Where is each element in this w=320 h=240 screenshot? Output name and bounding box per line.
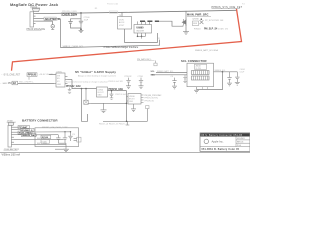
wire: drop to Q7180 bbox=[185, 11, 187, 18]
svg-text:S5 "G3Hot" 3.425V Supply: S5 "G3Hot" 3.425V Supply bbox=[75, 70, 116, 74]
connector P5100 reference label bbox=[27, 28, 46, 31]
svg-text:PACK_A PACK_B PACK_C: PACK_A PACK_B PACK_C bbox=[99, 122, 128, 125]
wire: row2 into U7090 bbox=[18, 82, 54, 84]
wire: U5920 output bbox=[108, 90, 127, 92]
wire: row4 into pack box bbox=[36, 134, 58, 136]
node: bottom rail junction bbox=[126, 121, 128, 123]
svg-text:PP1V8_S5: PP1V8_S5 bbox=[145, 100, 154, 102]
LDO U5920 bbox=[97, 87, 108, 97]
svg-text:- -SMC: - -SMC bbox=[1, 83, 8, 85]
capacitor C7000 bbox=[56, 135, 60, 144]
capacitor C7201 with ground bbox=[138, 76, 144, 89]
title block outer frame bbox=[200, 133, 250, 151]
capacitor C7091 bbox=[68, 88, 71, 94]
svg-text:100K 1%: 100K 1% bbox=[218, 29, 228, 31]
title block header band bbox=[200, 133, 249, 137]
connector P5100 shell (trapezoid) bbox=[32, 9, 39, 12]
transistor Q7180 (P-FET) bbox=[178, 18, 187, 26]
svg-text:PPVBAT: PPVBAT bbox=[19, 126, 28, 129]
wire: pin2 bbox=[14, 129, 21, 131]
ground: pack caps bbox=[55, 143, 69, 151]
charger IC U6990 bbox=[134, 25, 152, 34]
svg-text:CHGR_DCIN: CHGR_DCIN bbox=[62, 13, 77, 16]
wire: gate drive (bold dashed) bbox=[140, 20, 159, 22]
svg-text:PPBUS: PPBUS bbox=[28, 74, 37, 77]
wire: P6 to DCIN rail bbox=[121, 12, 123, 16]
connector J7000 shell (trapezoid) bbox=[8, 123, 14, 126]
connector J6100 pin row A bbox=[192, 71, 210, 75]
capacitor C6100 with ground bbox=[227, 72, 232, 86]
wire: gate drive thin continuation bbox=[159, 21, 178, 26]
wire: bottom rail bbox=[103, 120, 148, 122]
net label CHGR_BSENSE (boxed) bbox=[44, 17, 60, 21]
wire: PPBUS down jog bbox=[81, 88, 83, 90]
ground: U5930 bbox=[131, 104, 136, 112]
svg-text:Q7180: Q7180 bbox=[192, 19, 199, 21]
indicator D1 (circle symbol) bbox=[51, 25, 54, 28]
value label C7500 bbox=[84, 17, 91, 21]
U6990 bottom pins bbox=[137, 33, 146, 39]
resistor R7000 (boxed) bbox=[41, 135, 51, 139]
net label BATT_PRES (boxed) bbox=[18, 131, 32, 135]
capacitor C7510 branch (left leg) bbox=[68, 19, 81, 28]
svg-text:Always on when battery or char: Always on when battery or charger is pre… bbox=[78, 74, 116, 77]
title block apple logo bbox=[204, 139, 208, 144]
svg-text:GND: GND bbox=[57, 84, 62, 86]
svg-text:ADAPTER_ID: ADAPTER_ID bbox=[45, 18, 61, 21]
net name MAIN_PWR_SRC bbox=[187, 14, 211, 17]
svg-text:PP3V42: PP3V42 bbox=[125, 76, 132, 78]
wire: row3 into pack box bbox=[32, 131, 71, 133]
connector J7000 label bbox=[7, 121, 17, 123]
resistor R7021 (diagonal marks) bbox=[200, 20, 204, 24]
wire: sense to SMBus drop bbox=[56, 18, 60, 20]
svg-text:PM_EN_P3V3 SMC: PM_EN_P3V3 SMC bbox=[145, 95, 163, 97]
connector P5100 label bbox=[31, 6, 41, 8]
wire: pin3 bbox=[14, 131, 18, 133]
fuse F5100 body bbox=[110, 11, 118, 13]
ground: U5920 bbox=[101, 103, 107, 112]
wire: pin5 SCL bbox=[14, 138, 64, 140]
svg-text:U6990: U6990 bbox=[136, 26, 144, 29]
svg-text:C7201: C7201 bbox=[138, 76, 144, 78]
wire: pin1 bbox=[14, 126, 18, 128]
capacitor C7001 bbox=[58, 131, 67, 143]
connector J6100 outer box bbox=[187, 63, 214, 86]
ground: DCIN caps bbox=[79, 30, 84, 32]
svg-text:SMBUS_BATT_SCL/SDA: SMBUS_BATT_SCL/SDA bbox=[195, 49, 219, 52]
resistor R5922 (box with X) bbox=[84, 88, 91, 105]
svg-text:C5921 0.1uF: C5921 0.1uF bbox=[115, 94, 127, 96]
svg-text:C70: C70 bbox=[72, 134, 75, 136]
svg-text:SMBUS_BATT_SCL: SMBUS_BATT_SCL bbox=[157, 70, 173, 73]
pack box right pins bbox=[74, 137, 82, 142]
wire: SCL left 1 bbox=[156, 71, 187, 73]
net flag at lower rail bbox=[146, 106, 149, 122]
capacitor C4 with ground bbox=[171, 76, 178, 89]
connector J6100 inner label box bbox=[195, 64, 207, 70]
net labels right of U5930 bbox=[145, 95, 163, 102]
svg-text:SDA: SDA bbox=[151, 74, 156, 77]
regulator U7090 bbox=[54, 71, 68, 87]
svg-text:0.005: 0.005 bbox=[42, 142, 48, 144]
page bottom border bbox=[0, 151, 250, 153]
wire: pin 2 to sense label bbox=[36, 18, 44, 20]
capacitor C7002 bbox=[68, 131, 75, 141]
wire: extra shield ticks bbox=[202, 87, 204, 90]
svg-text:C5920 0.1uF 16V: C5920 0.1uF 16V bbox=[108, 81, 124, 83]
resistor stub near PPBUS bbox=[28, 77, 30, 80]
wire: ground return loop bbox=[197, 72, 223, 90]
wire: charger feedback loop bbox=[125, 29, 158, 42]
ground under Q7180 bbox=[183, 32, 189, 34]
connector J7000 body bbox=[8, 125, 14, 147]
node: right junction bbox=[222, 71, 224, 73]
battery pack outline box bbox=[35, 128, 79, 147]
wire: row1 into U7090 bbox=[49, 74, 56, 76]
svg-text:BATTERY CONNECTOR: BATTERY CONNECTOR bbox=[22, 118, 58, 122]
svg-text:PP_SYS R7021 10K: PP_SYS R7021 10K bbox=[205, 20, 224, 22]
svg-text:PPVBAT_G3H_CHGR_CONN: PPVBAT_G3H_CHGR_CONN bbox=[42, 126, 68, 129]
node: output junction bbox=[111, 90, 113, 92]
gate clamp box bbox=[193, 21, 199, 26]
connector J6100 pin row B bbox=[192, 76, 210, 80]
svg-text:PM: PM bbox=[8, 83, 12, 85]
ground under D1 bbox=[51, 28, 54, 30]
svg-text:SMBUS_SCL: SMBUS_SCL bbox=[215, 70, 226, 72]
red markup line (cross-out) bbox=[12, 9, 242, 71]
wire: SMBus vertical run bbox=[60, 19, 62, 48]
wire: ID pin bbox=[36, 20, 53, 22]
connector P5100 body bbox=[30, 12, 36, 27]
svg-text:SCL CONNECTOR: SCL CONNECTOR bbox=[181, 59, 207, 63]
capacitor C7200 with ground bbox=[125, 76, 132, 89]
svg-text:2-Wire SMBus/Charger Interface: 2-Wire SMBus/Charger Interface bbox=[104, 46, 139, 49]
capacitor C5921 bbox=[110, 91, 114, 100]
capacitor C6101 with ground bbox=[235, 69, 245, 85]
net label CHGR_DCIN (boxed) bbox=[62, 11, 78, 16]
svg-text:R7020: R7020 bbox=[194, 29, 201, 31]
net flag PM_BATLOW bbox=[137, 58, 157, 66]
U6990 top pins bbox=[138, 21, 150, 24]
node: DCIN junction bbox=[80, 12, 82, 14]
svg-text:VOUT: VOUT bbox=[119, 25, 125, 27]
svg-text:ISL9239: ISL9239 bbox=[136, 30, 144, 32]
svg-text:Apple Inc.: Apple Inc. bbox=[212, 139, 224, 143]
wire: U7090 output rail bbox=[68, 79, 73, 81]
wire: pin6 SDA bbox=[14, 143, 66, 145]
title block right column bbox=[236, 137, 250, 147]
wire: SCL left 2 bbox=[151, 74, 187, 76]
net label PPVBAT (boxed) bbox=[18, 126, 30, 130]
net label PPBUS (boxed) bbox=[27, 73, 37, 77]
svg-text:PP3V42_G3H: PP3V42_G3H bbox=[66, 85, 81, 88]
wire: long drop at x126.5 bbox=[126, 91, 128, 122]
ground: connector shield bbox=[194, 90, 199, 93]
node: cap bottom junction bbox=[80, 28, 82, 30]
connector P6 (boxed pins) bbox=[118, 17, 132, 30]
wire: main DCIN rail bbox=[36, 10, 237, 13]
net label G3 (boxed) bbox=[8, 81, 18, 85]
wire: SMBus tick to charger bbox=[159, 40, 161, 46]
wire: Q7180 source down bbox=[185, 26, 187, 31]
wire: ID drop bbox=[52, 21, 54, 25]
resistor R7001 (boxed) bbox=[41, 140, 50, 144]
svg-text:R7000: R7000 bbox=[42, 137, 49, 139]
net label PPVBAT_S (boxed) bbox=[21, 128, 35, 132]
svg-text:- -SYS_ONE_FET: - -SYS_ONE_FET bbox=[2, 74, 21, 76]
svg-text:39 PIN: 39 PIN bbox=[195, 68, 201, 70]
wire: lower rail bbox=[90, 102, 126, 104]
net label SMBUS_BATT (boxed) bbox=[22, 134, 38, 138]
svg-text:ACOK: ACOK bbox=[119, 21, 125, 24]
svg-text:05 S. Battery Connector 051-85: 05 S. Battery Connector 051-85 bbox=[201, 134, 243, 137]
IC U5930 bbox=[127, 94, 144, 105]
svg-text:REV 05: REV 05 bbox=[237, 141, 243, 143]
capacitor C7500 (right leg) bbox=[79, 13, 83, 29]
wire: SMBus horizontal run bbox=[61, 45, 161, 47]
svg-text:PM_SLP_S4: PM_SLP_S4 bbox=[204, 28, 218, 31]
svg-text:C4: C4 bbox=[171, 76, 173, 78]
svg-text:VI50ms 1/30 mA: VI50ms 1/30 mA bbox=[2, 153, 21, 156]
ground stub below rail bbox=[127, 121, 129, 125]
title block bottom row bbox=[200, 147, 250, 151]
svg-text:F5100 6.0A: F5100 6.0A bbox=[107, 3, 118, 6]
wire: pin4 bbox=[14, 134, 22, 136]
svg-text:GND: GND bbox=[98, 95, 103, 97]
svg-text:SMC_ONOFF_L: SMC_ONOFF_L bbox=[19, 82, 35, 84]
net name PPBUS_SYS_ONE_FET bbox=[212, 6, 243, 9]
wire: shield ticks bbox=[196, 87, 198, 90]
svg-text:PPVBAT_S: PPVBAT_S bbox=[21, 129, 33, 132]
node: gate net junction bbox=[201, 18, 203, 20]
svg-text:GND: GND bbox=[129, 101, 134, 103]
connector J7000 reference label bbox=[4, 148, 20, 151]
svg-text:10uF: 10uF bbox=[84, 20, 89, 22]
svg-text:051-8561 B. Battery Conn 05: 051-8561 B. Battery Conn 05 bbox=[202, 148, 240, 151]
svg-text:PP3V3_S5 RTC: PP3V3_S5 RTC bbox=[145, 98, 159, 100]
capacitor C6102 (inside J6100) bbox=[183, 75, 186, 83]
svg-text:051-8561: 051-8561 bbox=[237, 138, 245, 140]
wire: into U5920 bbox=[72, 80, 97, 89]
wire: SCL right bbox=[214, 71, 238, 73]
